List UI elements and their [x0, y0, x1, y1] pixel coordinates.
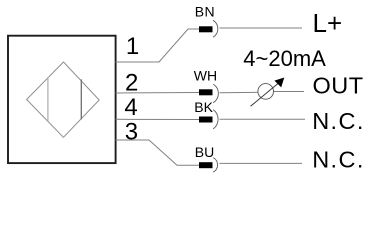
diamond left chord: [47, 77, 49, 122]
meter adjust diagonal: [251, 84, 279, 107]
svg-text:L+: L+: [313, 8, 343, 38]
wire WH connector to meter: [220, 91, 259, 94]
svg-text:4~20mA: 4~20mA: [243, 46, 326, 71]
meter circle: [258, 84, 274, 100]
connector pin WH: [199, 89, 213, 95]
svg-text:3: 3: [125, 118, 138, 145]
connector pin BK: [199, 117, 213, 123]
connector pin BN: [199, 26, 213, 32]
svg-text:4: 4: [124, 94, 137, 121]
sensor diamond symbol: [27, 62, 100, 137]
svg-text:BN: BN: [195, 4, 215, 20]
connector socket arc BK: [213, 110, 218, 129]
wire pin2 to WH connector: [116, 92, 200, 95]
wire pin4 to BK connector: [116, 118, 200, 120]
svg-text:OUT: OUT: [313, 73, 364, 99]
wire pin1 to BN connector: [116, 29, 200, 62]
connector socket arc BU: [213, 158, 217, 173]
wire BU connector to N.C.: [220, 162, 303, 164]
wire pin3 to BU connector: [116, 140, 200, 165]
meter arrowhead: [274, 78, 284, 88]
svg-text:BU: BU: [195, 144, 214, 160]
svg-text:N.C.: N.C.: [312, 147, 365, 173]
connector socket arc WH: [213, 84, 218, 103]
diamond right chord: [80, 79, 82, 119]
wire BK connector to N.C.: [220, 118, 306, 120]
connector socket arc BN: [213, 20, 218, 37]
svg-text:N.C.: N.C.: [312, 108, 365, 134]
connector pin BU: [199, 162, 213, 168]
svg-text:BK: BK: [194, 99, 213, 115]
wire BN connector to L+: [220, 27, 303, 29]
sensor body box: [8, 36, 116, 163]
svg-text:1: 1: [126, 33, 139, 60]
svg-text:WH: WH: [194, 68, 217, 84]
wire meter to OUT: [274, 91, 305, 93]
